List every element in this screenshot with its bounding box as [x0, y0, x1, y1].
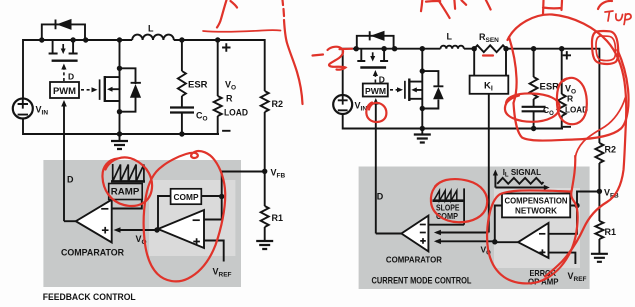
svg-text:R2: R2: [272, 99, 284, 109]
svg-text:PWM: PWM: [53, 86, 76, 96]
svg-text:D: D: [68, 72, 74, 82]
svg-text:LOAD: LOAD: [224, 108, 248, 118]
svg-text:ESR: ESR: [188, 80, 208, 90]
svg-text:NETWORK: NETWORK: [515, 206, 558, 216]
svg-text:D: D: [67, 175, 74, 185]
svg-text:FEEDBACK CONTROL: FEEDBACK CONTROL: [43, 292, 136, 303]
svg-text:CURRENT MODE CONTROL: CURRENT MODE CONTROL: [372, 276, 473, 286]
svg-text:R1: R1: [272, 213, 284, 223]
svg-text:OP AMP: OP AMP: [528, 277, 559, 287]
svg-text:R: R: [226, 94, 233, 104]
svg-text:PWM: PWM: [365, 86, 386, 96]
svg-text:D: D: [377, 192, 384, 202]
svg-text:COMP: COMP: [174, 192, 199, 202]
svg-text:COMPENSATION: COMPENSATION: [505, 196, 568, 206]
svg-text:R: R: [567, 94, 573, 104]
svg-text:L: L: [447, 32, 453, 42]
svg-text:RAMP: RAMP: [111, 187, 140, 197]
svg-text:R2: R2: [605, 145, 617, 155]
svg-text:L: L: [148, 24, 154, 34]
svg-text:ESR: ESR: [540, 82, 560, 92]
svg-text:IL SIGNAL: IL SIGNAL: [503, 168, 541, 179]
svg-text:COMPARATOR: COMPARATOR: [61, 248, 124, 258]
svg-text:COMPARATOR: COMPARATOR: [386, 255, 442, 265]
svg-text:R1: R1: [605, 227, 617, 237]
